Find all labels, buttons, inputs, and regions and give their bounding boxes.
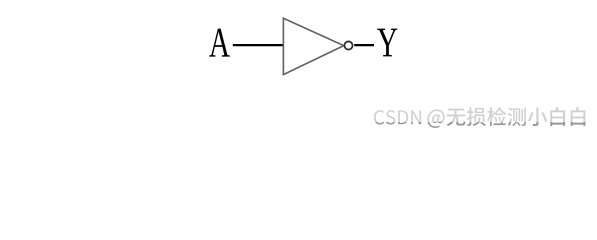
wire bubble to output Y xyxy=(354,44,374,46)
node Y label xyxy=(377,29,397,57)
inverter output bubble xyxy=(344,41,352,49)
watermark CSDN @无损检测小白白 xyxy=(374,107,586,128)
inverter U1 triangle xyxy=(283,18,343,74)
wire input A to inverter xyxy=(233,44,283,46)
node A label xyxy=(209,29,230,57)
